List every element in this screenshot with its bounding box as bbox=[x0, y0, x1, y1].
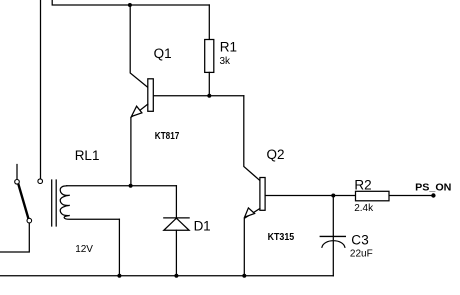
svg-text:2.4k: 2.4k bbox=[354, 203, 374, 214]
svg-text:RL1: RL1 bbox=[75, 148, 100, 163]
svg-text:R2: R2 bbox=[354, 177, 371, 192]
svg-text:R1: R1 bbox=[220, 39, 237, 54]
svg-text:22uF: 22uF bbox=[350, 248, 373, 259]
svg-text:12V: 12V bbox=[75, 244, 93, 255]
svg-text:C3: C3 bbox=[351, 233, 369, 248]
svg-text:PS_ON: PS_ON bbox=[415, 181, 451, 193]
svg-text:KT315: KT315 bbox=[268, 232, 295, 243]
svg-text:D1: D1 bbox=[194, 218, 211, 233]
svg-text:KT817: KT817 bbox=[155, 131, 180, 142]
svg-text:3k: 3k bbox=[220, 56, 232, 67]
svg-text:Q2: Q2 bbox=[267, 147, 285, 162]
svg-text:Q1: Q1 bbox=[154, 46, 172, 61]
